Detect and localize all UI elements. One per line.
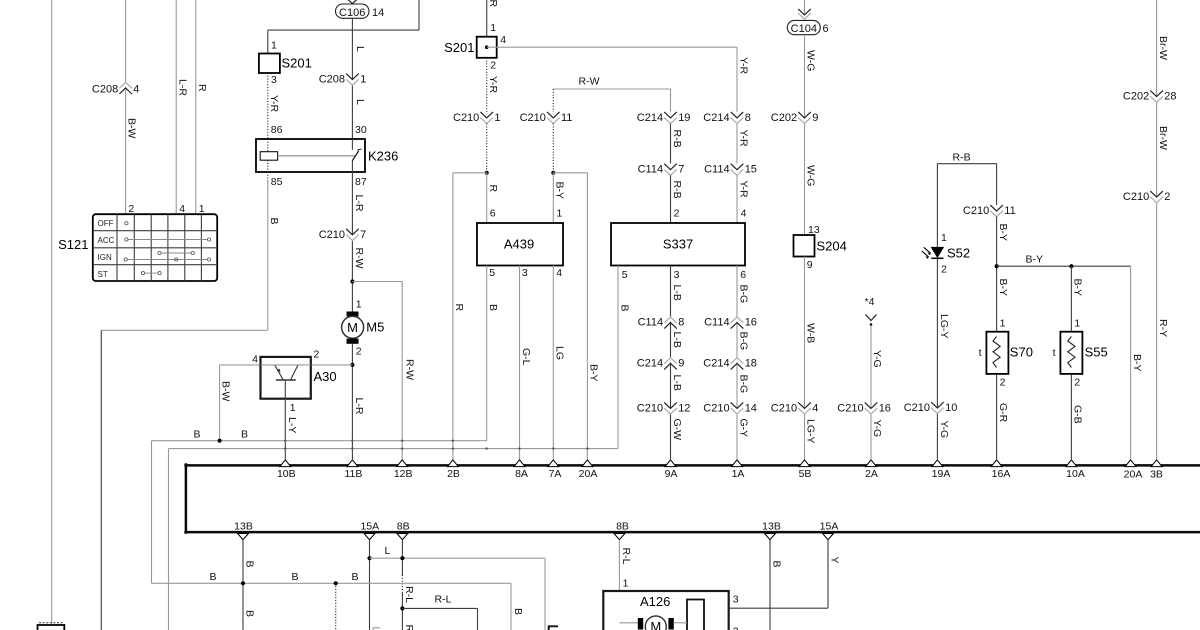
- pin 8B (out, right): [614, 521, 629, 540]
- svg-text:ACC: ACC: [98, 236, 115, 245]
- wire: Y-R from top into S201: [486, 0, 488, 37]
- svg-text:C210: C210: [771, 402, 797, 414]
- svg-text:B-G: B-G: [737, 332, 749, 351]
- svg-text:R-B: R-B: [953, 152, 971, 164]
- wire: R-W right end down to C214-19: [670, 89, 672, 112]
- connector C210 pin 7: [319, 229, 367, 241]
- pin 12B (in): [394, 460, 413, 480]
- pin 15A (out): [360, 521, 379, 540]
- svg-text:B-Y: B-Y: [1072, 279, 1084, 297]
- pin 15A (out, right): [820, 521, 839, 540]
- svg-text:4: 4: [812, 402, 818, 414]
- svg-text:ST: ST: [98, 270, 108, 279]
- svg-text:14: 14: [372, 7, 384, 19]
- wire: from top into C104: [804, 0, 806, 14]
- junction R-L: [400, 606, 404, 610]
- wire: Y-G down to 2A: [870, 326, 872, 460]
- svg-text:LG-Y: LG-Y: [805, 419, 817, 444]
- svg-text:1: 1: [941, 232, 947, 244]
- pin 2B (in): [447, 460, 460, 480]
- partial label at bottom edge: [373, 628, 380, 630]
- component stub below L wire: [549, 626, 558, 630]
- wire: branch right to 20A: [553, 173, 587, 459]
- svg-text:C210: C210: [319, 229, 345, 241]
- svg-text:C210: C210: [963, 205, 989, 217]
- svg-text:t: t: [1053, 347, 1056, 359]
- svg-text:14: 14: [745, 402, 757, 414]
- wire: dotted from R-W down through C210-11: [552, 89, 554, 112]
- svg-text:86: 86: [271, 124, 283, 136]
- svg-text:S201: S201: [282, 56, 312, 71]
- svg-text:Y-R: Y-R: [268, 95, 280, 113]
- svg-text:S55: S55: [1085, 345, 1108, 360]
- wire: R-W branch to 12B: [352, 282, 402, 460]
- svg-text:R-B: R-B: [671, 130, 683, 148]
- svg-text:9: 9: [678, 357, 684, 369]
- svg-text:Y-G: Y-G: [938, 421, 950, 439]
- wire: dotted below C210-11 to junction: [552, 124, 554, 173]
- wire: 13B right ground lead: [769, 540, 771, 630]
- svg-text:L: L: [354, 99, 366, 105]
- control module S337: [611, 223, 745, 266]
- connector C104 (oval): [787, 20, 828, 35]
- junction dotted/B rail: [334, 581, 338, 585]
- photo sensor S52 (LED symbol): [922, 247, 944, 259]
- svg-text:87: 87: [355, 176, 367, 188]
- wire: branch left to 2B: [453, 173, 487, 459]
- svg-text:1: 1: [1000, 318, 1006, 330]
- svg-text:R-Y: R-Y: [1157, 319, 1169, 337]
- svg-text:L-B: L-B: [671, 375, 683, 391]
- pin 8A (in): [514, 460, 528, 480]
- svg-text:B: B: [243, 561, 255, 568]
- svg-text:A126: A126: [640, 594, 670, 609]
- wire: R to S121 pin 1: [195, 0, 197, 214]
- pin 2A (in): [865, 460, 878, 480]
- svg-text:15A: 15A: [360, 521, 379, 533]
- junction A439 pin6: [485, 171, 489, 175]
- svg-text:B: B: [352, 571, 359, 583]
- svg-text:4: 4: [179, 203, 185, 215]
- svg-text:B: B: [243, 610, 255, 617]
- connector C210 pin 1: [453, 112, 501, 124]
- svg-text:11: 11: [561, 112, 572, 124]
- svg-text:Y-R: Y-R: [737, 181, 749, 199]
- svg-text:1: 1: [557, 208, 563, 220]
- svg-text:L-R: L-R: [176, 79, 188, 96]
- svg-text:B-G: B-G: [737, 375, 749, 394]
- wire: S337 pin5 B down-left: [169, 266, 619, 630]
- motor M inside A126: [619, 616, 687, 630]
- wire: R-W horizontal from C210-11 to C214-19: [553, 88, 670, 90]
- svg-text:2: 2: [941, 264, 947, 276]
- svg-text:4: 4: [741, 208, 747, 220]
- wire: down to A439 pin 1: [552, 173, 554, 223]
- svg-text:M: M: [650, 619, 661, 630]
- svg-text:C210: C210: [837, 402, 863, 414]
- svg-text:Br-W: Br-W: [1157, 126, 1169, 150]
- connector C210 pin 16: [837, 402, 891, 414]
- svg-text:20A: 20A: [1124, 468, 1143, 480]
- svg-text:19: 19: [678, 112, 690, 124]
- wire: G-R from S70 to 16A: [996, 374, 998, 459]
- svg-text:B-Y: B-Y: [1026, 254, 1044, 266]
- svg-text:1: 1: [494, 112, 500, 124]
- wire: 15A lead with L branch: [369, 540, 371, 630]
- relay K236: [256, 139, 365, 172]
- wire: A30 pin1 down to 10B: [284, 380, 286, 459]
- svg-text:C208: C208: [92, 84, 118, 96]
- wire: dotted below C210-1 to junction: [486, 124, 488, 173]
- svg-text:M: M: [347, 320, 358, 335]
- svg-text:B-G: B-G: [737, 285, 749, 304]
- arrowhead above C104: [798, 9, 811, 15]
- svg-text:9A: 9A: [665, 468, 678, 480]
- svg-text:C106: C106: [339, 7, 365, 19]
- svg-text:G-R: G-R: [997, 403, 1009, 423]
- svg-text:Y-R: Y-R: [487, 0, 499, 8]
- svg-text:11B: 11B: [344, 468, 362, 480]
- pin 7A (in): [548, 460, 562, 480]
- svg-text:C214: C214: [703, 112, 729, 124]
- svg-text:C214: C214: [637, 357, 663, 369]
- svg-text:C114: C114: [704, 164, 729, 176]
- svg-text:G-B: G-B: [1072, 405, 1084, 424]
- svg-text:B: B: [487, 304, 499, 311]
- wire: S337 pin3 to 9A: [670, 266, 672, 460]
- svg-text:B-Y: B-Y: [554, 182, 566, 200]
- svg-text:G-Y: G-Y: [737, 419, 749, 438]
- svg-text:C210: C210: [703, 402, 729, 414]
- wire: B-Y horizontal to 20A riser: [997, 266, 1131, 459]
- connector C210 pin 11 (right): [963, 205, 1016, 217]
- svg-text:4: 4: [252, 354, 258, 366]
- pin 1A (in): [732, 460, 745, 480]
- svg-text:2: 2: [674, 208, 680, 220]
- svg-text:8A: 8A: [515, 468, 528, 480]
- svg-text:C104: C104: [791, 23, 817, 35]
- svg-text:R: R: [487, 185, 499, 193]
- svg-text:Y-G: Y-G: [871, 350, 883, 368]
- wire: M5 pin2 down to 11B: [351, 344, 353, 459]
- svg-text:R-W: R-W: [579, 76, 600, 88]
- connector C114 pin 15: [704, 164, 757, 176]
- pin 19A (in): [932, 460, 951, 480]
- wire: B-Y from C210-11 down to S70: [996, 217, 998, 332]
- svg-text:8: 8: [745, 112, 751, 124]
- connector C202 pin 9: [771, 112, 819, 124]
- svg-text:8: 8: [678, 316, 684, 328]
- wire: 8B lead down to R-L junction: [401, 540, 403, 630]
- wire: A30 pin2 to M5 wire: [311, 364, 353, 366]
- svg-text:2: 2: [490, 60, 496, 72]
- svg-text:B: B: [512, 608, 524, 615]
- svg-text:1: 1: [490, 22, 496, 34]
- svg-text:1A: 1A: [732, 468, 745, 480]
- svg-text:R-L: R-L: [435, 594, 452, 606]
- junction 13B/B rail: [241, 581, 245, 585]
- connector C214 pin 9 (up): [637, 357, 685, 369]
- svg-text:18: 18: [745, 357, 757, 369]
- svg-text:C210: C210: [637, 402, 663, 414]
- connector C210 pin 12: [637, 402, 691, 414]
- wire: Y-R riser from S201 pin4 down to S337 pin 4: [736, 47, 738, 112]
- svg-text:13B: 13B: [762, 521, 781, 533]
- svg-text:2: 2: [1074, 377, 1080, 389]
- svg-text:C114: C114: [638, 164, 663, 176]
- svg-text:B-W: B-W: [220, 381, 232, 402]
- svg-text:R-L: R-L: [403, 625, 415, 630]
- svg-text:G-W: G-W: [671, 419, 683, 441]
- wire: A439 pin3 G-L to 8A: [519, 266, 521, 460]
- svg-text:20A: 20A: [579, 468, 598, 480]
- svg-text:12: 12: [678, 402, 690, 414]
- pin 10B (in): [277, 460, 296, 480]
- junction B-Y: [995, 264, 999, 268]
- svg-text:L-B: L-B: [671, 332, 683, 348]
- wire: G-B from S55 to 10A: [1070, 374, 1072, 459]
- svg-text:W-G: W-G: [805, 50, 817, 71]
- svg-text:Y: Y: [828, 557, 840, 564]
- svg-text:4: 4: [556, 267, 562, 279]
- wire: horizontal branch y=30 to S201 and right riser: [268, 0, 419, 54]
- wire: L-R to S121 pin 4: [175, 0, 177, 214]
- svg-text:LG: LG: [554, 346, 566, 360]
- wire: A439 pin5 B down-left: [152, 266, 487, 584]
- svg-text:2: 2: [356, 346, 362, 358]
- wire: S201 pin4 right to Y-R riser: [487, 46, 737, 48]
- wire: W-G down to S204: [804, 35, 806, 235]
- svg-text:B: B: [241, 429, 248, 441]
- svg-text:1: 1: [199, 203, 205, 215]
- svg-text:B: B: [194, 429, 201, 441]
- svg-text:B-Y: B-Y: [997, 224, 1009, 242]
- svg-text:A30: A30: [314, 369, 337, 384]
- connector C210 pin 10: [904, 402, 958, 414]
- crossing marks on B runs: [284, 440, 589, 450]
- svg-text:Y-G: Y-G: [871, 420, 883, 438]
- svg-text:1: 1: [623, 578, 629, 590]
- pin 3B (in): [1150, 460, 1163, 481]
- svg-text:2: 2: [128, 203, 134, 215]
- pin 16A (in): [991, 460, 1010, 480]
- blower unit A126: [603, 591, 728, 630]
- svg-text:*4: *4: [865, 296, 875, 308]
- connector C210 pin 14: [703, 402, 757, 414]
- svg-text:B: B: [619, 305, 631, 312]
- wire: Br-W / R-Y far right column to 3B: [1156, 0, 1158, 459]
- connector C214 pin 19: [637, 112, 691, 124]
- svg-text:K236: K236: [368, 149, 398, 164]
- svg-text:19A: 19A: [932, 468, 951, 480]
- svg-text:A439: A439: [504, 237, 534, 252]
- motor M5: [342, 312, 364, 344]
- connector C214 pin 8: [703, 112, 751, 124]
- component: partial box bottom-left: [38, 623, 65, 630]
- splice S204: [794, 235, 815, 257]
- pin 13B (out, right): [762, 521, 781, 540]
- svg-text:R: R: [196, 84, 208, 92]
- connector C210 pin 4: [771, 402, 819, 414]
- wire: B from K236 pin 85 down and left: [101, 172, 267, 630]
- svg-text:9: 9: [812, 112, 818, 124]
- svg-text:2: 2: [1164, 191, 1170, 203]
- wire: B ground rail: [152, 583, 512, 630]
- svg-text:R-B: R-B: [671, 181, 683, 199]
- pin 5B (in): [799, 460, 812, 480]
- svg-text:Y-R: Y-R: [737, 130, 749, 148]
- thermistor S55: [1053, 332, 1083, 374]
- svg-text:6: 6: [740, 269, 746, 281]
- svg-text:3: 3: [271, 74, 277, 86]
- wire: L branch: [370, 558, 546, 630]
- svg-text:B: B: [292, 571, 299, 583]
- svg-text:2A: 2A: [865, 468, 878, 480]
- svg-text:4: 4: [500, 34, 506, 46]
- junction B-W/B: [218, 439, 222, 443]
- svg-text:7: 7: [678, 164, 684, 176]
- svg-text:IGN: IGN: [98, 253, 112, 262]
- svg-text:C210: C210: [904, 402, 930, 414]
- svg-text:C114: C114: [638, 316, 663, 328]
- connector C208 pin 1: [319, 74, 367, 86]
- wire: LG-Y from S52 to 19A: [936, 258, 938, 459]
- svg-text:1: 1: [271, 40, 277, 52]
- wire: 13B ground lead: [242, 540, 244, 630]
- svg-text:L-B: L-B: [671, 285, 683, 301]
- svg-text:30: 30: [355, 124, 367, 136]
- connector C114 pin 8 (up): [638, 316, 685, 328]
- pin 10A (in): [1066, 460, 1085, 480]
- note *4 with arrow: [865, 296, 877, 326]
- svg-text:L-R: L-R: [353, 398, 365, 415]
- electronic module A30 (transistor): [261, 357, 311, 399]
- junction above M5: [350, 279, 354, 283]
- svg-text:t: t: [979, 347, 982, 359]
- wire: R-B between C214-19 and C114-7: [670, 124, 672, 164]
- svg-text:8B: 8B: [616, 521, 629, 533]
- wire: L-R from K236 pin 87 down: [351, 172, 353, 312]
- junction S55: [1069, 264, 1073, 268]
- svg-text:L: L: [354, 46, 366, 52]
- svg-text:S121: S121: [58, 237, 88, 252]
- svg-text:C210: C210: [1123, 191, 1149, 203]
- wire: Y from 15A to A126 pin 3: [704, 540, 828, 609]
- svg-text:11: 11: [1004, 205, 1015, 217]
- svg-text:Y-R: Y-R: [737, 57, 749, 75]
- svg-text:LG-Y: LG-Y: [938, 314, 950, 339]
- svg-text:13B: 13B: [234, 521, 253, 533]
- connector C214 pin 18 (up): [703, 357, 757, 369]
- svg-text:R-L: R-L: [620, 548, 632, 565]
- wire: B-W from C208-4 to S121 pin 2: [125, 0, 127, 214]
- wire: S337 pin6 to 1A: [736, 266, 738, 460]
- svg-text:7: 7: [360, 229, 366, 241]
- pin 8B (out): [397, 521, 410, 540]
- svg-text:6: 6: [490, 208, 496, 220]
- svg-text:B-Y: B-Y: [1131, 354, 1143, 372]
- wire: dotted Y-R below S201: [486, 58, 488, 112]
- svg-text:15A: 15A: [820, 521, 839, 533]
- svg-text:2: 2: [1000, 377, 1006, 389]
- svg-text:5: 5: [622, 269, 628, 281]
- svg-text:S70: S70: [1010, 345, 1033, 360]
- svg-text:7A: 7A: [549, 468, 562, 480]
- connector C208 pin 4 (up chevron): [92, 82, 140, 96]
- svg-text:L-Y: L-Y: [286, 417, 298, 433]
- svg-text:3: 3: [522, 267, 528, 279]
- wire: dotted Y-R from S201 to K236 pin 86: [267, 73, 269, 139]
- svg-text:28: 28: [1164, 91, 1176, 103]
- thermistor S70: [979, 332, 1009, 374]
- wire: R-B to S337 pin 2: [670, 175, 672, 223]
- svg-text:10A: 10A: [1066, 468, 1085, 480]
- wire: R-B loop: [937, 164, 996, 247]
- junction A439 pin1: [551, 171, 555, 175]
- svg-text:4: 4: [133, 84, 139, 96]
- svg-text:2: 2: [314, 349, 320, 361]
- svg-text:S201: S201: [444, 40, 474, 55]
- svg-text:R-W: R-W: [353, 248, 365, 269]
- svg-text:C214: C214: [637, 112, 663, 124]
- svg-text:C208: C208: [319, 74, 345, 86]
- svg-text:16: 16: [879, 402, 891, 414]
- svg-text:12B: 12B: [394, 468, 413, 480]
- wire: far-left vertical: [51, 0, 53, 625]
- junction L: [367, 556, 371, 560]
- svg-text:2B: 2B: [447, 468, 460, 480]
- svg-text:16: 16: [745, 316, 757, 328]
- svg-text:L-R: L-R: [353, 195, 365, 212]
- svg-text:B-Y: B-Y: [588, 364, 600, 382]
- pin 20A (in): [579, 460, 598, 480]
- splice S201 (left box): [259, 40, 312, 87]
- wire: B-Y to S55: [1070, 266, 1072, 332]
- svg-text:B: B: [210, 571, 217, 583]
- control module A439: [477, 223, 563, 266]
- wire: W-B down to 5B: [804, 257, 806, 460]
- svg-text:OFF: OFF: [98, 219, 114, 228]
- svg-text:B-W: B-W: [126, 118, 138, 139]
- wire: R-L from 8B to A126 pin 1: [618, 540, 620, 623]
- svg-text:2: 2: [733, 626, 739, 630]
- svg-text:Y-R: Y-R: [487, 76, 499, 94]
- svg-text:1: 1: [356, 299, 362, 311]
- svg-text:6: 6: [823, 23, 829, 35]
- svg-text:R: R: [453, 304, 465, 312]
- svg-text:B-Y: B-Y: [997, 279, 1009, 297]
- svg-text:C202: C202: [1123, 91, 1149, 103]
- svg-text:5: 5: [489, 267, 495, 279]
- wire: A439 pin4 LG to 7A: [552, 266, 554, 460]
- junction 8B/L: [400, 556, 404, 560]
- svg-text:3: 3: [733, 594, 739, 606]
- svg-text:R-W: R-W: [403, 359, 415, 380]
- splice S201 (right box): [444, 37, 497, 58]
- svg-text:W-G: W-G: [805, 165, 817, 186]
- svg-text:S337: S337: [663, 237, 693, 252]
- wire: dotted drop from B rail: [335, 583, 337, 630]
- svg-text:85: 85: [271, 176, 283, 188]
- connector C106 (oval) with arrow: [336, 0, 385, 19]
- svg-text:G-L: G-L: [520, 348, 532, 366]
- svg-text:1: 1: [290, 402, 296, 414]
- svg-text:C214: C214: [703, 357, 729, 369]
- connector C114 pin 7: [638, 164, 685, 176]
- svg-text:W-B: W-B: [805, 323, 817, 343]
- pin 11B (in): [344, 460, 362, 480]
- svg-text:16A: 16A: [992, 468, 1011, 480]
